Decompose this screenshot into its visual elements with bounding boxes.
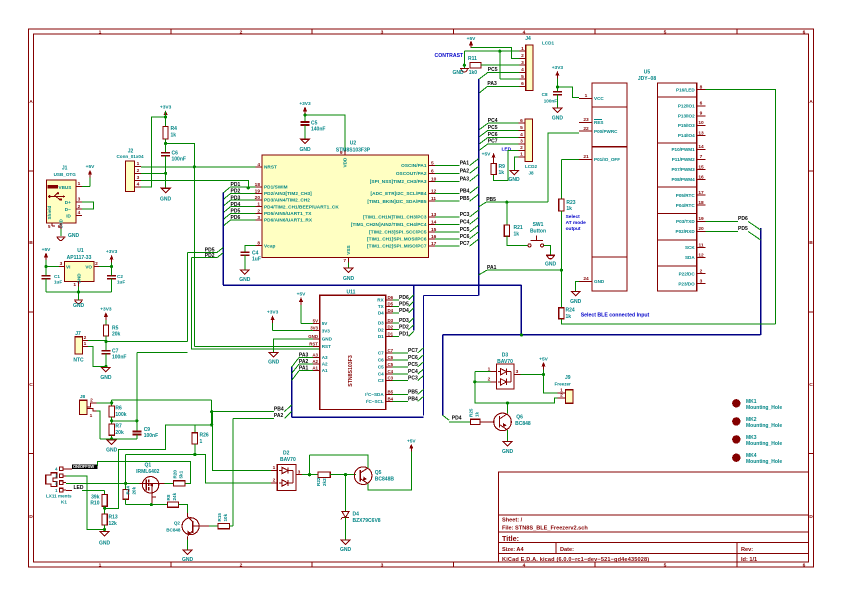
svg-text:AP1117-33: AP1117-33: [67, 255, 92, 261]
net label PB5 right of U2: [435, 194, 479, 202]
capacitor C8 100nF: [542, 92, 562, 104]
svg-text:5: 5: [664, 562, 667, 568]
svg-text:GND: GND: [340, 547, 352, 553]
svg-text:12k: 12k: [109, 521, 118, 527]
svg-text:Shield: Shield: [47, 206, 52, 220]
bus B vertical: [478, 79, 480, 296]
svg-text:GND: GND: [100, 375, 112, 381]
svg-text:J4: J4: [525, 36, 531, 42]
wire J4 pin1 row: [464, 50, 519, 53]
svg-text:P04/RTC: P04/RTC: [676, 203, 696, 208]
bus G vertical U11 PC: [423, 296, 425, 416]
ground at J1: [56, 233, 79, 241]
wire C6 to GND: [164, 156, 167, 188]
svg-text:C4: C4: [378, 372, 384, 377]
svg-text:1: 1: [200, 439, 203, 445]
svg-text:[TIM2_CH3]SPI_SCC/PC5: [TIM2_CH3]SPI_SCC/PC5: [369, 230, 427, 235]
net label PB5 mid: [479, 197, 548, 207]
wire R13 junction to R26 top: [105, 423, 214, 508]
capacitor C6 100nF: [161, 151, 186, 163]
wire Q6 collector: [507, 403, 509, 414]
svg-text:P11/PWM2: P11/PWM2: [672, 157, 695, 162]
svg-text:A1: A1: [312, 366, 318, 371]
diode D3 BAV70: [488, 353, 521, 390]
bus horizontal y335: [443, 333, 761, 336]
svg-text:AT mode: AT mode: [566, 220, 586, 226]
svg-text:1: 1: [99, 29, 102, 35]
svg-text:D3: D3: [378, 320, 384, 325]
svg-text:PC5: PC5: [408, 362, 418, 368]
net label PD5 at U11: [393, 301, 414, 307]
svg-text:20k: 20k: [115, 430, 124, 436]
vertical to sense line: [125, 455, 127, 484]
svg-text:PD4: PD4: [399, 308, 409, 314]
resistor R9 1k: [491, 164, 505, 177]
svg-text:1: 1: [257, 202, 260, 208]
svg-text:U11: U11: [347, 289, 356, 295]
svg-text:PD6: PD6: [738, 216, 748, 222]
capacitor C2: [107, 267, 125, 292]
svg-text:D4: D4: [353, 512, 360, 518]
svg-text:13: 13: [698, 130, 704, 136]
resistor R14 20k: [123, 483, 136, 504]
title block: [499, 472, 809, 563]
ground at R7: [106, 440, 118, 454]
svg-text:Sheet: /: Sheet: /: [502, 518, 523, 524]
svg-text:1: 1: [84, 341, 87, 347]
svg-text:VDD: VDD: [343, 157, 348, 168]
svg-text:15: 15: [698, 164, 704, 170]
ground at U1: [73, 292, 85, 309]
wire Q6 emitter to GND: [507, 430, 509, 442]
wire +3V3 to U11: [273, 323, 313, 331]
wire D3 low loop: [475, 382, 558, 405]
wire contrast node: [463, 51, 466, 67]
svg-text:6: 6: [521, 81, 524, 87]
svg-text:7: 7: [343, 258, 346, 264]
svg-text:3: 3: [520, 139, 523, 145]
power +3V3 at R4: [160, 105, 172, 119]
capacitor C4 1uF: [240, 251, 261, 263]
svg-text:2k2: 2k2: [322, 478, 327, 486]
svg-text:GND: GND: [570, 299, 582, 305]
svg-text:Q2: Q2: [174, 521, 181, 526]
svg-text:1: 1: [137, 161, 140, 167]
svg-text:GND: GND: [502, 449, 514, 455]
svg-text:19: 19: [255, 189, 261, 195]
svg-text:Mounting_Hole: Mounting_Hole: [746, 441, 782, 447]
svg-text:18: 18: [698, 200, 704, 206]
svg-text:+5V: +5V: [482, 152, 491, 158]
svg-text:4: 4: [523, 29, 526, 35]
svg-text:39k: 39k: [91, 495, 100, 501]
net label PD1 at U11: [393, 331, 414, 337]
wire Q5 emitter to +5V: [368, 449, 412, 490]
svg-text:21: 21: [583, 154, 589, 160]
svg-text:A: A: [29, 99, 33, 105]
svg-text:PC5: PC5: [488, 125, 498, 131]
switch SW1 Button: [528, 222, 546, 247]
power +5V at U11: [297, 291, 306, 305]
svg-text:P13/IO2: P13/IO2: [678, 113, 695, 118]
svg-text:PD5: PD5: [738, 226, 748, 232]
svg-text:File: STN8S_BLE_Freezerv2.sch: File: STN8S_BLE_Freezerv2.sch: [502, 526, 588, 532]
wire R21 to SW1: [507, 236, 528, 245]
wire sense y454: [126, 453, 271, 483]
svg-text:14: 14: [698, 144, 704, 150]
wire +5V to J9 pin1: [544, 375, 558, 393]
svg-text:1uF: 1uF: [54, 280, 62, 285]
wire R4 to C6 junction: [164, 139, 167, 153]
svg-text:GND: GND: [545, 262, 557, 268]
svg-text:PD2/AIN3[TIM2_CH3]: PD2/AIN3[TIM2_CH3]: [264, 191, 312, 196]
svg-text:6: 6: [431, 168, 434, 174]
svg-text:23: 23: [583, 117, 589, 123]
svg-text:NTC: NTC: [73, 358, 84, 364]
wire PD4 to R25: [449, 421, 470, 423]
svg-text:1k: 1k: [566, 206, 572, 212]
svg-text:D1: D1: [378, 334, 384, 339]
hier label LED: [502, 147, 512, 153]
svg-text:GND: GND: [508, 177, 520, 183]
svg-text:USB_OTG: USB_OTG: [54, 172, 77, 177]
svg-text:OSCOUT/PA2: OSCOUT/PA2: [396, 171, 427, 176]
svg-text:PB4: PB4: [408, 396, 418, 402]
svg-text:C5: C5: [378, 365, 384, 370]
svg-text:Mounting_Hole: Mounting_Hole: [746, 423, 782, 429]
wire PD5 run to J7: [187, 253, 189, 342]
net label PA3 at J4: [479, 81, 520, 94]
net label PD6 at U5: [706, 216, 761, 230]
svg-text:LX11 ments: LX11 ments: [46, 494, 72, 499]
net label PC3 at U11: [393, 376, 424, 382]
svg-text:PD5: PD5: [399, 301, 409, 307]
svg-text:+5V: +5V: [86, 164, 95, 170]
svg-text:D5: D5: [388, 301, 394, 306]
svg-text:RX: RX: [377, 297, 384, 302]
wire Q2 emitter to GND: [187, 540, 189, 550]
svg-text:I²C−SDA: I²C−SDA: [365, 392, 384, 397]
svg-text:PC6: PC6: [408, 355, 418, 361]
svg-text:9: 9: [340, 150, 343, 156]
svg-text:R22: R22: [316, 477, 321, 486]
svg-text:D1: D1: [388, 331, 394, 336]
svg-text:D2: D2: [283, 451, 290, 457]
svg-text:STN8S103F3: STN8S103F3: [348, 355, 354, 387]
svg-text:24: 24: [583, 276, 589, 282]
connector J4 LCD1: [520, 36, 555, 90]
svg-text:R23: R23: [566, 200, 575, 206]
svg-text:5V: 5V: [313, 319, 318, 324]
hier label CONTRAST: [435, 53, 465, 59]
wire U1 GND rail: [46, 287, 112, 294]
svg-text:5V: 5V: [322, 321, 329, 326]
connector K1: [46, 467, 72, 505]
svg-text:3: 3: [516, 369, 519, 375]
wire Q1 source: [124, 482, 140, 485]
svg-text:C6: C6: [388, 355, 394, 360]
svg-text:1: 1: [521, 46, 524, 52]
svg-text:3: 3: [137, 175, 140, 181]
resistor R24 1k: [559, 270, 575, 320]
svg-text:3: 3: [257, 215, 260, 221]
svg-text:LCD2: LCD2: [525, 164, 537, 169]
bus E vertical right: [760, 228, 762, 335]
resistor R5 20k: [103, 325, 120, 338]
svg-text:+5V: +5V: [42, 247, 51, 253]
wire R23 to PA1 junction: [560, 211, 562, 270]
svg-text:1k: 1k: [499, 170, 505, 176]
svg-text:BAV70: BAV70: [280, 457, 296, 463]
svg-text:3V3: 3V3: [322, 328, 331, 333]
svg-text:D: D: [29, 514, 33, 520]
svg-text:U2: U2: [350, 141, 357, 147]
svg-text:PC3: PC3: [408, 376, 418, 382]
wire U11 GND: [274, 339, 313, 353]
capacitor C7 100nF: [101, 341, 126, 360]
svg-text:PA3: PA3: [299, 353, 309, 359]
svg-text:11: 11: [698, 242, 703, 248]
svg-text:RES: RES: [594, 120, 603, 125]
svg-text:GND: GND: [182, 557, 194, 563]
svg-text:PB4: PB4: [274, 407, 284, 413]
wire R8 to Q2: [179, 505, 188, 513]
svg-text:GND: GND: [343, 276, 355, 282]
svg-text:BZX79C6V8: BZX79C6V8: [353, 518, 381, 524]
wire P16 LED long: [706, 90, 776, 324]
resistor R11 1k0: [468, 56, 481, 76]
svg-text:J8: J8: [528, 171, 534, 176]
net label PC5 right of U2: [435, 225, 479, 233]
svg-text:D2: D2: [378, 327, 384, 332]
transistor Q6 BC848: [494, 413, 531, 431]
capacitor C1: [42, 267, 63, 292]
svg-text:D3: D3: [388, 318, 394, 323]
svg-text:PC4: PC4: [488, 118, 498, 124]
net label PC3 right of U2: [435, 210, 479, 218]
svg-text:GND: GND: [99, 541, 111, 547]
ground at Q2: [182, 550, 194, 563]
svg-text:[TIM1_CH1]SPI_MOSI/PC6: [TIM1_CH1]SPI_MOSI/PC6: [367, 236, 427, 241]
svg-text:12: 12: [698, 252, 704, 258]
svg-text:1: 1: [520, 152, 523, 158]
bus H bottom horizontal: [292, 416, 424, 418]
svg-text:Freezer: Freezer: [555, 382, 572, 387]
svg-text:PC4: PC4: [408, 369, 418, 375]
net label PD2 at U11: [393, 325, 414, 331]
bus horizontal y285: [223, 284, 521, 286]
svg-text:2: 2: [700, 269, 703, 275]
svg-text:P07/PWM3: P07/PWM3: [671, 167, 695, 172]
svg-text:C3: C3: [378, 378, 384, 383]
svg-text:2: 2: [257, 209, 260, 215]
svg-text:+3V3: +3V3: [106, 249, 118, 255]
svg-text:Size: A4: Size: A4: [502, 547, 524, 553]
svg-text:22: 22: [583, 126, 589, 132]
svg-text:17: 17: [698, 190, 704, 196]
net label PD2 mid: [192, 253, 224, 259]
svg-text:A3: A3: [322, 355, 328, 360]
svg-text:GND: GND: [299, 147, 311, 153]
net label PB4 right of U2: [435, 186, 479, 194]
svg-text:PC5: PC5: [488, 67, 498, 73]
svg-text:GND: GND: [160, 197, 172, 203]
wire J4 pin1 to pin5: [500, 51, 520, 79]
svg-text:ID: ID: [66, 214, 71, 219]
svg-text:5: 5: [521, 74, 524, 80]
svg-text:Title:: Title:: [502, 534, 519, 543]
power +3V3 at C5: [299, 101, 311, 114]
svg-text:GND: GND: [322, 336, 333, 341]
wire D2 pin1: [213, 412, 271, 471]
svg-text:P23/DO: P23/DO: [678, 281, 695, 286]
resistor R21 1k: [504, 202, 523, 237]
net label PD5 at U2: [223, 209, 255, 220]
svg-text:P01/IO_OFF: P01/IO_OFF: [594, 157, 620, 162]
svg-text:D3: D3: [502, 353, 509, 359]
svg-text:PB4: PB4: [460, 188, 470, 194]
bus A vertical left of U2: [222, 192, 224, 285]
svg-text:D4: D4: [388, 308, 394, 313]
ground at J7: [100, 367, 112, 381]
svg-text:D+: D+: [65, 200, 71, 205]
wire sense row y400: [112, 399, 212, 401]
svg-text:A3: A3: [312, 353, 318, 358]
svg-text:1k: 1k: [514, 232, 520, 238]
svg-text:3V3: 3V3: [310, 326, 318, 331]
svg-text:6: 6: [803, 29, 806, 35]
svg-text:PD1: PD1: [399, 331, 409, 337]
svg-text:GND: GND: [552, 115, 564, 121]
net label LED at K1: [74, 485, 84, 491]
wire PB5 to U5 P00: [548, 133, 579, 202]
svg-text:C9: C9: [144, 427, 151, 433]
svg-text:100nF: 100nF: [544, 98, 557, 103]
svg-text:PD6/AIN6/UART1_RX: PD6/AIN6/UART1_RX: [264, 218, 313, 223]
net label PA2 right of U2: [435, 166, 479, 174]
svg-text:BC848B: BC848B: [375, 476, 395, 482]
wire +3V3 to R5: [105, 320, 107, 325]
net label PD3 at U11: [393, 318, 414, 324]
wire NTC junction to PD5 run: [106, 340, 188, 342]
svg-text:OSCIN/PA1: OSCIN/PA1: [401, 163, 427, 168]
regulator U1 AP1117-33: [59, 248, 99, 288]
wire PB4 run down: [210, 400, 213, 425]
wire NTC run down: [137, 352, 188, 421]
svg-text:P15/IO3: P15/IO3: [678, 123, 695, 128]
svg-text:1: 1: [73, 282, 76, 288]
svg-text:PB5: PB5: [408, 389, 418, 395]
wire R7 C9 GND: [100, 435, 137, 441]
svg-text:RST: RST: [309, 341, 318, 346]
svg-text:J8: J8: [80, 394, 86, 400]
svg-text:VO: VO: [85, 265, 92, 270]
svg-text:100k: 100k: [115, 412, 126, 418]
svg-text:7: 7: [700, 154, 703, 160]
svg-text:C7: C7: [378, 351, 384, 356]
svg-text:PC7: PC7: [408, 348, 418, 354]
svg-text:PD3: PD3: [399, 318, 409, 324]
svg-text:2: 2: [240, 562, 243, 568]
bus horizontal y295: [424, 295, 479, 297]
svg-text:PA1: PA1: [460, 161, 470, 167]
svg-text:P00/PWRC: P00/PWRC: [594, 129, 618, 134]
resistor R6 100k: [109, 403, 127, 418]
svg-text:C6: C6: [378, 358, 384, 363]
svg-text:IRML6402: IRML6402: [136, 469, 160, 475]
power +5V at U1: [42, 247, 51, 260]
wire C7 to GND: [104, 354, 107, 369]
net label PD1 at U2: [223, 182, 255, 193]
resistor R7 20k: [109, 424, 124, 436]
svg-text:A1: A1: [322, 368, 328, 373]
net label PC6 at U11: [393, 355, 424, 361]
transistor Q1 IRML6402: [136, 462, 165, 504]
wire +5V to U11: [301, 305, 313, 324]
mounting hole MK3: [732, 435, 782, 447]
resistor R25 1k: [469, 408, 481, 424]
svg-text:5: 5: [520, 125, 523, 131]
svg-text:PD6: PD6: [399, 295, 409, 301]
svg-text:Id: 1/1: Id: 1/1: [741, 557, 757, 563]
svg-text:[TIM1_CH1N]TIM1_CH3/PC3: [TIM1_CH1N]TIM1_CH3/PC3: [363, 215, 427, 220]
svg-text:3: 3: [78, 197, 81, 203]
svg-text:2: 2: [137, 168, 140, 174]
svg-text:2: 2: [90, 398, 93, 404]
wire U2 Vcap to C4: [245, 246, 256, 253]
net label PD3 at U2: [223, 195, 255, 206]
svg-text:VBUS: VBUS: [59, 185, 72, 190]
svg-text:C4: C4: [388, 369, 394, 374]
svg-text:PD3/AIN4/TIM2_CH2: PD3/AIN4/TIM2_CH2: [264, 198, 310, 203]
connector J7 NTC: [73, 331, 88, 364]
wire C4 to GND: [244, 255, 246, 270]
svg-text:C5: C5: [388, 362, 394, 367]
svg-text:PD4: PD4: [452, 415, 462, 421]
svg-text:PD5/AIN5/UART1_TX: PD5/AIN5/UART1_TX: [264, 211, 312, 216]
svg-text:2: 2: [95, 261, 98, 267]
wire U1 VO to +3V3: [99, 265, 113, 268]
svg-text:2: 2: [560, 393, 563, 399]
svg-text:Date:: Date:: [560, 547, 574, 553]
net label PA3 at U11: [292, 353, 313, 368]
svg-text:+3V3: +3V3: [100, 306, 112, 312]
svg-text:PA1: PA1: [299, 366, 309, 372]
net label PB4 at U11: [393, 396, 424, 402]
wire D2 pin3 node: [302, 455, 318, 477]
svg-text:SDA: SDA: [685, 255, 695, 260]
svg-text:R13: R13: [109, 515, 118, 521]
net label ON/OFFSW: [66, 464, 98, 469]
bus C vertical: [520, 285, 522, 335]
svg-text:BC848: BC848: [515, 421, 531, 427]
svg-text:1k: 1k: [171, 133, 177, 139]
svg-text:2: 2: [84, 335, 87, 341]
svg-text:A2: A2: [312, 359, 318, 364]
svg-text:Conn_01x04: Conn_01x04: [116, 154, 144, 159]
wire D2 pin2: [270, 482, 273, 484]
svg-text:6: 6: [700, 101, 703, 107]
net label PB4 lower: [212, 405, 292, 413]
svg-text:100nF: 100nF: [112, 355, 126, 361]
connector J9 Freezer: [555, 375, 574, 403]
svg-text:R21: R21: [514, 225, 523, 231]
power +5V at J1: [86, 164, 95, 178]
svg-text:KiCad E.D.A. kicad (6.0.0−rc1: KiCad E.D.A. kicad (6.0.0−rc1−dev−521−gd…: [502, 557, 649, 563]
svg-text:100nF: 100nF: [144, 433, 158, 439]
svg-text:3: 3: [60, 261, 63, 267]
svg-text:C7: C7: [388, 348, 394, 353]
